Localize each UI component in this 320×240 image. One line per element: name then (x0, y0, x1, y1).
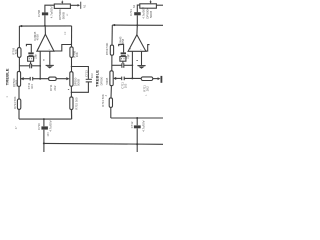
svg-text:TREBLE: TREBLE (4, 68, 9, 85)
svg-text:C713: C713 (84, 70, 88, 77)
svg-text:DP500: DP500 (100, 76, 104, 85)
svg-text:4.7u/50V: 4.7u/50V (48, 120, 52, 131)
svg-text:-: - (49, 47, 50, 51)
svg-text:TREBLE: TREBLE (94, 70, 99, 87)
svg-text:50KB: 50KB (149, 11, 153, 18)
svg-text:R715 560: R715 560 (74, 97, 78, 110)
svg-text:C711: C711 (129, 9, 133, 16)
svg-text:+: + (129, 47, 131, 51)
svg-text:50K: 50K (14, 49, 18, 54)
svg-text:C710: C710 (37, 123, 41, 130)
svg-text:50KB: 50KB (15, 80, 19, 87)
svg-text:103: 103 (30, 84, 34, 89)
svg-text:+: + (37, 47, 39, 51)
svg-text:50KB: 50KB (77, 79, 81, 86)
svg-text:R713 50K: R713 50K (13, 96, 17, 109)
svg-text:4.7u/50V: 4.7u/50V (142, 120, 146, 131)
svg-text:RT09 50K: RT09 50K (105, 43, 109, 56)
svg-text:2K2: 2K2 (53, 85, 57, 90)
svg-text:N2: N2 (132, 4, 136, 8)
svg-text:C708: C708 (37, 10, 41, 17)
svg-text:50KB: 50KB (105, 78, 109, 85)
svg-text:C712: C712 (130, 121, 134, 128)
svg-text:4.7u/50V: 4.7u/50V (50, 6, 54, 18)
svg-text:4558: 4558 (121, 38, 125, 45)
svg-text:2K2: 2K2 (146, 86, 150, 91)
svg-text:4558: 4558 (36, 34, 40, 41)
svg-text:N1: N1 (83, 4, 87, 8)
svg-text:10K: 10K (75, 52, 79, 57)
svg-text:103: 103 (123, 83, 127, 88)
svg-text:-: - (140, 47, 141, 51)
svg-text:103: 103 (90, 73, 94, 78)
